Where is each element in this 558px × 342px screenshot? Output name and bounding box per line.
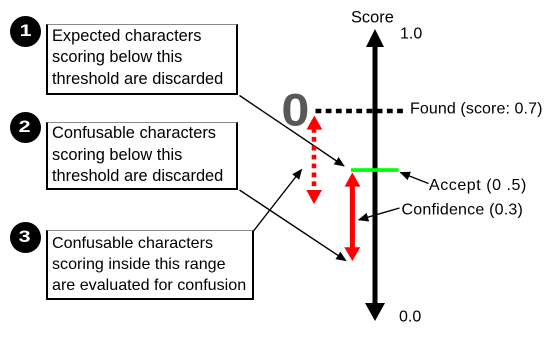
svg-text:Found (score: 0.7): Found (score: 0.7) <box>410 101 543 118</box>
svg-text:Score: Score <box>351 9 394 27</box>
numbered bullet 1 <box>10 16 41 47</box>
green accept line <box>351 168 399 172</box>
connector from box 1 to accept line <box>240 96 345 167</box>
svg-text:0: 0 <box>281 86 309 136</box>
numbered bullet 3 <box>10 222 41 253</box>
red dashed arrow (discard range 2) <box>306 116 322 205</box>
red solid arrow (confidence range) <box>344 173 360 262</box>
svg-text:Confidence (0.3): Confidence (0.3) <box>402 202 524 219</box>
callout box 2 <box>46 122 238 190</box>
connector from Confidence label to red solid arrow <box>359 208 400 220</box>
connector from Accept label to green line <box>401 173 429 184</box>
connector from box 3 to red dashed arrow <box>254 170 302 232</box>
callout box 3 <box>46 230 254 301</box>
svg-text:Accept (0 .5): Accept (0 .5) <box>429 177 527 194</box>
numbered bullet 2 <box>10 112 41 143</box>
svg-text:1.0: 1.0 <box>400 26 422 43</box>
callout box 1 <box>46 24 238 95</box>
svg-text:0.0: 0.0 <box>399 309 421 326</box>
dotted threshold line (Found 0.7) <box>316 109 404 114</box>
connector from box 2 to bottom of confidence range <box>240 190 346 261</box>
axis line (Score axis) <box>365 29 385 321</box>
